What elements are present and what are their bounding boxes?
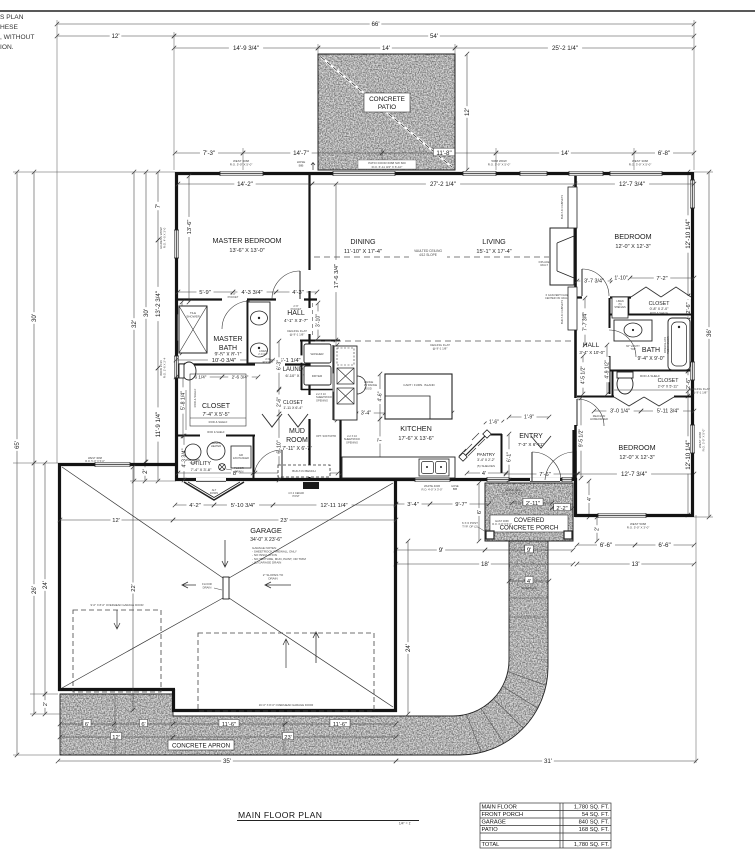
svg-text:23': 23' (284, 735, 292, 741)
svg-text:POCKET: POCKET (228, 295, 239, 299)
dim 14-7 (241, 148, 384, 157)
bath south - closet3 north wall (610, 370, 694, 372)
sidewalk note (521, 586, 536, 590)
dim 7-7-3/4 hall2 (581, 296, 589, 347)
dim 14ft right (494, 148, 636, 157)
closet3 wall gaps (614, 395, 674, 398)
svg-text:7': 7' (378, 438, 384, 442)
garage stoop steps (184, 482, 244, 500)
svg-text:KITCHEN: KITCHEN (400, 424, 432, 433)
bedroom1 south wall (577, 296, 694, 298)
builtin label lower (560, 300, 564, 324)
window master bedroom north (220, 171, 263, 176)
dim 6-8 (632, 148, 696, 157)
svg-text:TOTAL: TOTAL (482, 842, 500, 848)
svg-text:6': 6' (477, 510, 483, 514)
window bedroom1 north (610, 171, 662, 176)
air exchanger (231, 446, 251, 468)
bath2 tub (668, 318, 690, 370)
dim 6-3 laundry (275, 339, 283, 391)
svg-text:54 SQ. FT.: 54 SQ. FT. (582, 812, 610, 818)
pressure tank label (186, 458, 201, 465)
kitchen sink (419, 459, 449, 476)
vanity wall (247, 300, 249, 364)
svg-text:, WITHOUT: , WITHOUT (0, 34, 34, 41)
dim 31ft bottom (394, 756, 698, 765)
pressure tank (185, 444, 201, 460)
svg-text:7'-3": 7'-3" (203, 150, 215, 157)
slope note (263, 573, 284, 581)
svg-text:HOMEOWNER: HOMEOWNER (590, 417, 608, 421)
closet1 south wall (609, 314, 694, 316)
dim 23ft apron (171, 732, 398, 740)
svg-text:HESE: HESE (0, 24, 19, 31)
hall south - laundry north wall (300, 340, 340, 342)
cabinet note (316, 392, 332, 402)
tub label (663, 336, 670, 354)
dim 65ft left overall (12, 170, 21, 757)
svg-text:6': 6' (141, 722, 145, 728)
svg-text:MAIN FLOOR: MAIN FLOOR (482, 805, 517, 811)
svg-text:6'-6": 6'-6" (600, 542, 612, 549)
svg-text:14': 14' (561, 150, 569, 157)
dim 12-7-3/4 bedroom1 (573, 179, 696, 188)
dim 11-6 apron b (283, 719, 398, 727)
dim 4ft entry (465, 469, 508, 477)
svg-text:54': 54' (430, 33, 438, 40)
svg-text:6'-6": 6'-6" (658, 542, 670, 549)
svg-text:BIB: BIB (453, 487, 457, 491)
kitchen island (385, 374, 452, 419)
ceiling flat note c (690, 387, 710, 395)
svg-text:2': 2' (142, 469, 149, 474)
dim 6ft apron b (112, 719, 175, 727)
svg-text:BEDROOM: BEDROOM (614, 232, 651, 241)
svg-text:17'-6 3/4": 17'-6 3/4" (334, 264, 340, 288)
dim 66ft overall width (55, 19, 696, 28)
tile shower label (186, 311, 200, 319)
svg-text:CONCRETE: CONCRETE (369, 96, 405, 103)
svg-text:9'-0" X 8'-0" OVERHEAD GARAGE: 9'-0" X 8'-0" OVERHEAD GARAGE DOOR (91, 603, 144, 607)
dim 12ft apron (58, 732, 175, 740)
svg-text:7'-4" X 3'-8": 7'-4" X 3'-8" (191, 467, 212, 472)
dim 5-8-1/4 closet (179, 363, 187, 438)
dim 4ft porch right (585, 479, 593, 519)
dim 2-6 closet2 (684, 369, 692, 398)
post note (462, 521, 478, 529)
tile shower (179, 306, 207, 353)
svg-text:7'-6 1/2": 7'-6 1/2" (581, 313, 585, 323)
front door opening (530, 478, 560, 481)
svg-text:R.O. 4'-0 X 3'-0: R.O. 4'-0 X 3'-0 (163, 227, 167, 248)
svg-text:34'-0" X 23'-6": 34'-0" X 23'-6" (250, 537, 282, 543)
dim 12-11-1/4 garage (271, 500, 398, 508)
dim 12ft garage int (58, 515, 175, 523)
garage drain leader (214, 588, 222, 590)
fireplace (550, 228, 574, 285)
svg-text:R.O. 3'-0" X 5'-0": R.O. 3'-0" X 5'-0" (502, 491, 523, 495)
window garage top wall (95, 462, 130, 467)
dim 4-2 garage (173, 500, 216, 508)
dim 4-9-1/2 (603, 343, 611, 396)
svg-text:7': 7' (155, 204, 162, 209)
door master bedroom (272, 271, 300, 299)
pantry north wall (486, 434, 502, 436)
svg-text:13'-2 3/4": 13'-2 3/4" (155, 291, 162, 317)
window dining north (463, 171, 496, 176)
window label bedroom1 (629, 159, 652, 167)
svg-text:14': 14' (382, 45, 390, 52)
dim 6-10 mud (275, 412, 283, 482)
builtin cabinet lower (568, 287, 577, 330)
svg-text:11'-10" X 17'-4": 11'-10" X 17'-4" (344, 249, 382, 255)
pantry door angled (463, 434, 487, 458)
svg-text:18': 18' (481, 561, 489, 568)
svg-text:2'-0" X 5'-11": 2'-0" X 5'-11" (658, 385, 679, 389)
svg-text:ROD & SHELF: ROD & SHELF (650, 311, 668, 315)
svg-text:SIDEWALK: SIDEWALK (521, 586, 536, 590)
bedroom2 window note (492, 519, 512, 526)
svg-text:4/12 SLOPE: 4/12 SLOPE (419, 253, 437, 257)
range label (364, 380, 377, 390)
vanity label (626, 344, 640, 351)
right wing west wall lower (574, 478, 577, 517)
svg-text:DINING: DINING (350, 237, 376, 246)
patio door label (358, 160, 416, 169)
window bedroom1 east (690, 180, 695, 208)
dim 7-3 (173, 148, 245, 157)
dim 4-3-3/4 utility (180, 434, 188, 482)
mud lockers (262, 414, 282, 427)
svg-text:LIVING: LIVING (482, 237, 506, 246)
svg-text:POST: POST (292, 494, 299, 498)
dim 8ft utility (176, 468, 255, 476)
exterior wall right (691, 172, 694, 517)
svg-text:4'-3 3/4": 4'-3 3/4" (241, 290, 262, 296)
dim 54ft (172, 31, 696, 40)
svg-text:65': 65' (14, 441, 21, 449)
window living north a (520, 171, 547, 176)
svg-text:DRYER: DRYER (312, 374, 323, 378)
window bedroom2 east (690, 425, 695, 453)
svg-text:30': 30' (143, 309, 150, 317)
dim 13ft (575, 559, 696, 568)
svg-text:1'-6": 1'-6" (489, 420, 499, 426)
svg-text:4'-1" X 3'-7": 4'-1" X 3'-7" (284, 318, 308, 323)
window label master (230, 159, 253, 167)
fridge dashed (337, 348, 354, 365)
svg-text:MASTER: MASTER (213, 336, 242, 343)
closet-hall wall (308, 300, 310, 480)
svg-text:12'-7 3/4": 12'-7 3/4" (621, 471, 647, 478)
svg-text:3'-4": 3'-4" (361, 411, 371, 417)
door arc front (532, 452, 561, 481)
dim 24ft walk (403, 539, 412, 716)
svg-text:32': 32' (131, 320, 138, 328)
svg-text:36': 36' (706, 329, 713, 337)
svg-text:PATIO: PATIO (378, 104, 396, 111)
svg-text:SHELVES: SHELVES (614, 306, 626, 309)
svg-text:9': 9' (527, 547, 532, 554)
dim 3-4 porch (394, 499, 432, 507)
porch label (490, 515, 568, 532)
porch wdw note (502, 488, 523, 495)
french door note (581, 313, 585, 323)
pantry shelves note (477, 464, 495, 468)
dim 6ft porch side (475, 481, 483, 543)
svg-text:R.O. 2'-8 X 2'-4: R.O. 2'-8 X 2'-4 (163, 357, 167, 378)
garage slope arrow down (222, 540, 228, 567)
garage slope arrow left (265, 582, 291, 588)
master closet rod (185, 390, 187, 430)
svg-text:2'-11": 2'-11" (526, 501, 540, 507)
svg-text:4': 4' (527, 579, 531, 585)
dim 12-10-1/4 lower (683, 389, 692, 517)
svg-text:CENTER ON VAULT: CENTER ON VAULT (545, 296, 569, 300)
svg-text:R.O. 6'-11 3/4" X 6'-10": R.O. 6'-11 3/4" X 6'-10" (372, 165, 403, 169)
entry east wall (572, 430, 574, 480)
svg-text:CLOSET: CLOSET (202, 403, 231, 410)
dim 2-6 closet1 (684, 294, 692, 322)
hose bib label top (297, 160, 306, 168)
range hood arc (357, 376, 366, 394)
dim 6-6 left (575, 540, 637, 549)
dim 18ft (394, 559, 575, 568)
entry coat chevron (531, 436, 551, 448)
area table (480, 803, 611, 848)
title scale note (399, 822, 412, 826)
svg-text:VAULT: VAULT (540, 263, 548, 267)
svg-text:PANTRY: PANTRY (477, 452, 495, 457)
washer (304, 344, 331, 363)
dim extension island (335, 340, 337, 374)
svg-text:10'-0 3/4": 10'-0 3/4" (212, 358, 236, 364)
appliance note (316, 434, 336, 438)
dim 6-1-1/4 (253, 355, 316, 363)
counter end line (433, 462, 435, 479)
svg-text:BUILT-IN BENCH: BUILT-IN BENCH (292, 469, 315, 473)
svg-text:POCKET: POCKET (263, 360, 274, 364)
svg-text:11'-8": 11'-8" (436, 150, 451, 157)
svg-text:BUILT-IN CABINETS: BUILT-IN CABINETS (560, 300, 564, 324)
svg-text:2': 2' (595, 527, 601, 531)
svg-text:@ 9'-1 1/8": @ 9'-1 1/8" (693, 391, 708, 395)
dim 2ft porch right (593, 515, 601, 543)
svg-text:MASTER BEDROOM: MASTER BEDROOM (212, 236, 281, 245)
dim 6-1 pantry (505, 432, 513, 482)
svg-text:ROD & SHELF: ROD & SHELF (207, 430, 225, 434)
svg-text:12': 12' (112, 735, 120, 741)
svg-text:24': 24' (405, 644, 412, 652)
svg-text:0'-8" X 2'-0": 0'-8" X 2'-0" (650, 307, 669, 311)
svg-text:14'-9 3/4": 14'-9 3/4" (233, 45, 259, 52)
svg-text:4'-6": 4'-6" (378, 391, 384, 401)
dim 9-7 porch (428, 499, 491, 507)
dim 3-0-1/4 (592, 407, 643, 415)
concrete patio hatch (318, 54, 455, 170)
svg-text:BIB: BIB (299, 164, 304, 168)
linen label (614, 300, 626, 309)
left extension connectors (13, 172, 176, 755)
svg-text:11'-6": 11'-6" (222, 722, 236, 728)
exterior wall top (175, 172, 694, 175)
master suite south wall (176, 298, 317, 300)
window bath west (174, 356, 179, 378)
kitchen counter (342, 457, 455, 478)
air exchanger label (233, 454, 249, 460)
svg-text:ROD & SHELF: ROD & SHELF (193, 388, 197, 407)
dim 30ft house left inner (141, 170, 150, 464)
patio door (333, 171, 395, 176)
garage slope arrow up (313, 632, 319, 663)
svg-text:11'-9 1/4": 11'-9 1/4" (155, 412, 162, 438)
dim 3-4 island gap (355, 409, 387, 417)
homeowner closet note (590, 414, 608, 421)
overhead door label right (259, 703, 314, 707)
svg-text:BEDROOM: BEDROOM (618, 443, 655, 452)
mud bench label (292, 469, 315, 473)
window note bedroom2 (627, 522, 650, 530)
svg-text:OPENING: OPENING (346, 440, 358, 444)
dim 2-6-3/4 (220, 373, 260, 379)
door arc bath2 (609, 330, 636, 357)
floor drain label (234, 466, 244, 473)
svg-text:CONCRETE APRON: CONCRETE APRON (172, 743, 230, 750)
svg-text:GARAGE: GARAGE (482, 820, 507, 826)
svg-text:3'-4": 3'-4" (407, 502, 419, 508)
utility floor drain (219, 464, 226, 471)
covered concrete porch hatch (485, 483, 573, 541)
door arc entry interior (545, 452, 573, 480)
closet1 rod note (650, 311, 668, 315)
svg-text:BUILT-IN CABINETS: BUILT-IN CABINETS (560, 195, 564, 219)
svg-text:12': 12' (112, 518, 120, 524)
svg-text:26': 26' (31, 586, 38, 594)
right extension connectors (694, 172, 713, 763)
svg-text:16'-0" X 8'-0" OVERHEAD GARAGE: 16'-0" X 8'-0" OVERHEAD GARAGE DOOR (259, 703, 314, 707)
bath-closet wall gap (255, 363, 285, 366)
svg-text:R.O. 5'-0" X 5'-0": R.O. 5'-0" X 5'-0" (85, 459, 105, 463)
garage door arrow2 (283, 639, 289, 668)
svg-text:TYP. OF (2): TYP. OF (2) (462, 525, 478, 529)
svg-text:DRAIN: DRAIN (268, 577, 277, 581)
door arc mud-garage (254, 450, 282, 478)
window master bedroom west (174, 230, 179, 258)
master toilet (182, 362, 196, 380)
bath2 vanity (614, 320, 652, 341)
svg-text:1'-11 X 6'-4": 1'-11 X 6'-4" (283, 406, 303, 410)
svg-text:R.O. 3'-0" X 5'-0": R.O. 3'-0" X 5'-0" (492, 522, 512, 526)
water heater label (211, 441, 221, 448)
svg-text:9'-7": 9'-7" (455, 502, 467, 508)
window label bedroom2 east (698, 429, 706, 452)
garage bottom-left wall (58, 688, 175, 691)
svg-text:(5) SHELVES: (5) SHELVES (477, 464, 495, 468)
garage diagonal a2 (229, 598, 393, 707)
svg-text:6'-8": 6'-8" (658, 150, 670, 157)
window bedroom2 south (598, 513, 646, 518)
window living north b (569, 171, 603, 176)
post leader (478, 527, 489, 534)
svg-text:3'-10": 3'-10" (316, 314, 322, 327)
svg-text:4'-2": 4'-2" (189, 503, 201, 509)
dim 12-10-1/4 upper (683, 170, 692, 298)
egress window note left (159, 227, 167, 248)
garage window note (85, 456, 105, 463)
window porch west of door (487, 477, 509, 482)
dim 11-6 apron a (171, 719, 287, 727)
svg-text:9': 9' (439, 547, 444, 554)
svg-text:6': 6' (85, 722, 89, 728)
closet2 south wall (176, 435, 255, 437)
exterior wall left (175, 172, 178, 481)
master bath door arc (222, 301, 250, 329)
svg-text:WASHER: WASHER (310, 352, 324, 356)
porch post sw (486, 531, 494, 539)
window label kitchen sink (421, 484, 442, 491)
window bath east (690, 362, 695, 380)
svg-text:DRAIN: DRAIN (203, 585, 212, 589)
svg-text:R.O. 4'-0" X 3'-0": R.O. 4'-0" X 3'-0" (421, 487, 442, 491)
svg-text:5'-10 3/4": 5'-10 3/4" (231, 503, 255, 509)
dim 12ft left (55, 31, 176, 40)
dim 27-2-1/4 living (310, 179, 577, 188)
svg-text:CART / FURN. ISLAND: CART / FURN. ISLAND (403, 383, 435, 387)
garage diagonal a (62, 467, 223, 578)
hose bib arrow (311, 163, 315, 171)
dim 30ft left upper (29, 170, 38, 465)
svg-text:9'-4" X 9'-0": 9'-4" X 9'-0" (637, 356, 664, 362)
svg-text:ION.: ION. (0, 44, 14, 51)
svg-text:CLOSET: CLOSET (658, 378, 680, 384)
dark post pad (303, 482, 319, 489)
mudroom-kitchen wall (339, 412, 341, 480)
closet1 bifold doors (631, 287, 691, 297)
svg-text:7'-2": 7'-2" (656, 276, 667, 282)
svg-text:12'-0" X 12'-3": 12'-0" X 12'-3" (619, 455, 654, 461)
closet3 west wall (612, 371, 614, 397)
garage top wall (58, 463, 176, 466)
floor step note (267, 451, 269, 453)
master suite wall gaps (222, 298, 304, 301)
svg-text:6'-3": 6'-3" (277, 360, 283, 370)
svg-text:12'-0" X 12'-3": 12'-0" X 12'-3" (615, 244, 650, 250)
svg-text:2': 2' (43, 702, 49, 706)
overhead door label left (91, 603, 144, 607)
svg-text:ROOM: ROOM (286, 437, 308, 444)
dim 14-6 cabinets (333, 343, 341, 422)
svg-text:R.O. 5'-0" X 5'-0": R.O. 5'-0" X 5'-0" (230, 163, 253, 167)
laundry west wall (301, 341, 303, 390)
dim 1-6 pantry (484, 418, 504, 426)
closet3 rod line (614, 389, 692, 391)
svg-text:TANK: TANK (190, 461, 197, 465)
garage floor drain (223, 577, 229, 599)
ceiling flat note b (430, 343, 450, 351)
dim 1-9 (507, 413, 551, 421)
svg-text:DRAIN: DRAIN (235, 469, 244, 473)
dim 17-6-3/4 center (331, 182, 339, 342)
svg-text:SHOWER: SHOWER (186, 315, 200, 319)
dim 7-6 entry (504, 469, 580, 477)
garage bottom wall (172, 709, 397, 712)
kitchen cabinets column (334, 346, 357, 420)
dim 14-9-3/4 (172, 43, 320, 52)
dim 2ft utility (140, 460, 149, 483)
bedroom1 south wall gaps (582, 296, 691, 299)
dim 24ft garage height (40, 461, 49, 696)
pocket door note3 (263, 357, 274, 364)
